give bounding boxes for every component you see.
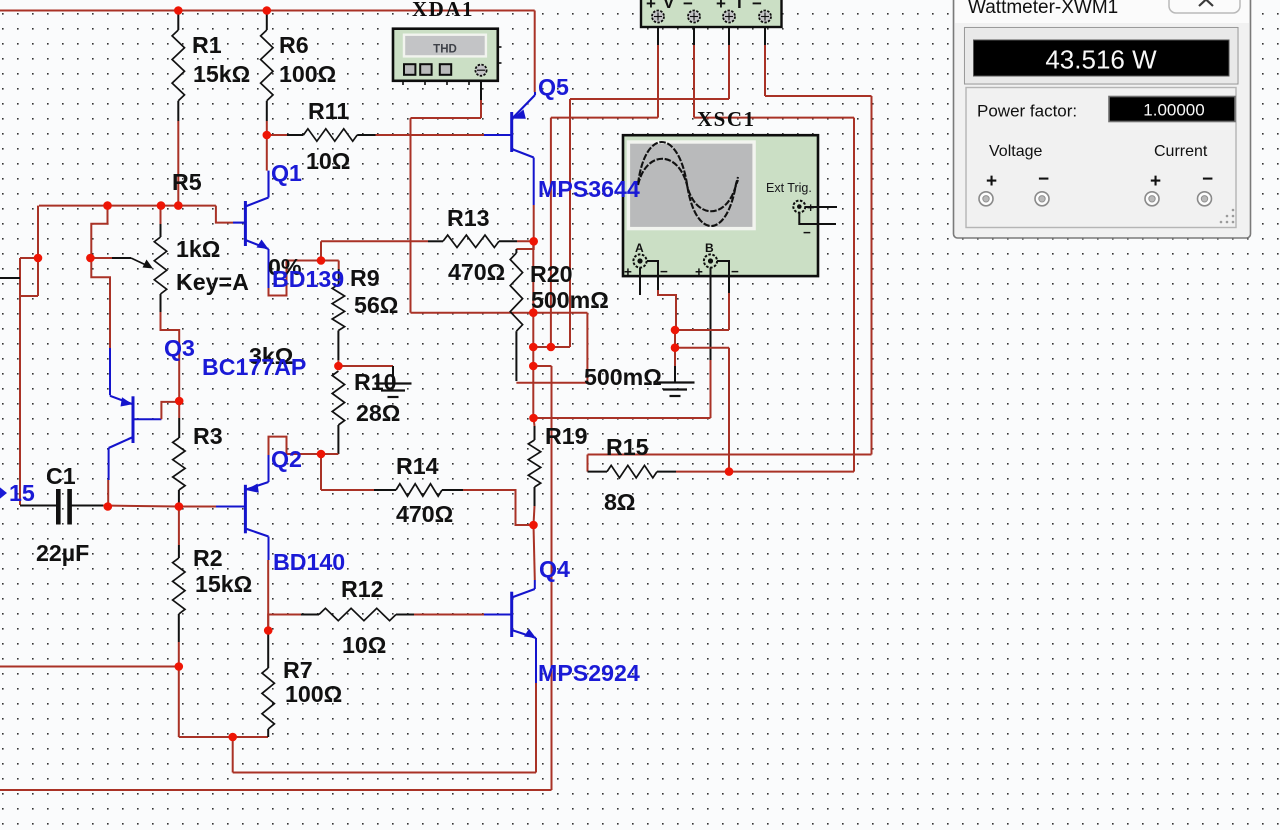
svg-text:15kΩ: 15kΩ xyxy=(195,571,252,597)
svg-text:XDA1: XDA1 xyxy=(412,0,474,21)
wire Q2 emitter drop xyxy=(268,537,270,561)
potentiometer R5 1k xyxy=(154,237,166,294)
svg-text:1kΩ: 1kΩ xyxy=(176,236,220,262)
svg-text:R13: R13 xyxy=(447,205,490,231)
wire R14 tap riser xyxy=(320,454,322,490)
scope terminal in-box leads xyxy=(640,261,729,277)
resistor R3 xyxy=(173,438,185,490)
svg-text:BC177AP: BC177AP xyxy=(202,354,306,380)
wire node A to input xyxy=(20,257,38,259)
wattmeter lower panel xyxy=(966,88,1236,228)
wire R5 top lead xyxy=(160,206,162,224)
resistor R11 10 xyxy=(303,129,357,141)
wire emitter rail y772 xyxy=(233,772,536,774)
wire bias rail corner to Q1 base xyxy=(216,206,233,223)
ground GND1 xyxy=(392,366,394,384)
svg-text:Current: Current xyxy=(1154,143,1208,160)
svg-text:56Ω: 56Ω xyxy=(354,292,398,318)
wire R3 top lead xyxy=(178,401,180,418)
svg-text:Voltage: Voltage xyxy=(989,143,1042,160)
svg-text:470Ω: 470Ω xyxy=(396,501,453,527)
wire left rail y667 xyxy=(0,666,179,668)
svg-text:R19: R19 xyxy=(545,423,588,449)
ground GND2 xyxy=(657,381,695,383)
wire wattmeter I- drop xyxy=(728,23,730,45)
scope trace A xyxy=(638,142,738,226)
svg-text:R1: R1 xyxy=(192,32,222,58)
svg-text:THD: THD xyxy=(433,44,457,56)
svg-text:XSC1: XSC1 xyxy=(697,107,756,131)
svg-text:I: I xyxy=(737,0,742,12)
svg-text:+: + xyxy=(646,0,656,13)
wire R1 top lead xyxy=(177,11,179,31)
wire R10 bottom lead xyxy=(337,425,339,454)
resistor R10 28 xyxy=(332,371,344,425)
wire R11 right to Q5 base xyxy=(357,134,375,136)
svg-text:28Ω: 28Ω xyxy=(356,400,400,426)
wire Q5 emitter feed from rail xyxy=(534,11,536,93)
scope ext trig stubs xyxy=(806,206,837,208)
wire Q2 collector jogs xyxy=(268,455,270,482)
wire R14 right to output xyxy=(442,489,463,491)
svg-text:Q2: Q2 xyxy=(271,446,302,472)
wire R12 right to Q4 base xyxy=(396,614,414,616)
wire R9 bottom lead xyxy=(337,331,339,361)
wire Q3 emitter down to node C xyxy=(108,448,110,480)
wire C1 right to node C xyxy=(72,505,104,507)
wire gnd2 stem xyxy=(674,348,676,366)
wire wattmeter V- drop xyxy=(693,23,695,45)
svg-text:470Ω: 470Ω xyxy=(448,259,505,285)
wire input vertical xyxy=(19,258,21,505)
svg-text:−: − xyxy=(752,0,762,13)
resistor R1 15k xyxy=(172,30,184,101)
svg-text:A: A xyxy=(635,241,644,255)
wire THD sense y312 xyxy=(411,312,588,314)
svg-text:−: − xyxy=(803,225,811,240)
wire R7 top lead xyxy=(267,631,269,669)
wire R20 bottom path xyxy=(515,331,517,381)
svg-text:V: V xyxy=(663,0,675,12)
resistor R7 100 xyxy=(262,668,274,729)
svg-text:+: + xyxy=(695,265,703,280)
svg-text:Q5: Q5 xyxy=(538,74,569,100)
wire R6 bottom to R11 node xyxy=(266,101,268,121)
wire bottom rail y790 xyxy=(0,789,552,791)
svg-text:C1: C1 xyxy=(46,463,76,489)
wattmeter close button xyxy=(1169,0,1240,13)
wattmeter resize grip xyxy=(1232,221,1235,224)
svg-text:Key=A: Key=A xyxy=(176,269,249,295)
wire R20 top jog xyxy=(516,241,533,249)
svg-text:R20: R20 xyxy=(530,261,573,287)
svg-text:500mΩ: 500mΩ xyxy=(531,287,609,313)
svg-text:8Ω: 8Ω xyxy=(604,489,636,515)
svg-text:15: 15 xyxy=(9,480,35,506)
wire Q4 collector riser xyxy=(534,525,535,580)
svg-text:R15: R15 xyxy=(606,434,649,460)
wire R1 bottom to bias rail xyxy=(177,101,179,121)
wire R11 node to Q1 collector xyxy=(266,135,268,171)
wire R6 top lead xyxy=(266,11,268,31)
svg-text:10Ω: 10Ω xyxy=(306,148,350,174)
wire y347 link xyxy=(533,346,570,348)
wire R2 node down xyxy=(178,667,180,738)
wire R13 tap riser xyxy=(320,241,322,260)
svg-text:1.00000: 1.00000 xyxy=(1143,101,1204,120)
wire jog to C1 drop xyxy=(20,295,38,297)
svg-text:R12: R12 xyxy=(341,576,384,602)
transistor Q3 PNP xyxy=(109,396,133,448)
wattmeter terminals xyxy=(979,192,993,206)
svg-text:Q1: Q1 xyxy=(271,160,302,186)
svg-text:−: − xyxy=(1202,169,1213,190)
transistor Q5 PNP xyxy=(512,92,535,158)
resistor R14 470 xyxy=(396,484,442,496)
wire THD lead xyxy=(480,75,482,100)
svg-text:500mΩ: 500mΩ xyxy=(584,364,662,390)
wire Q1 emitter jog xyxy=(268,249,270,288)
svg-text:R7: R7 xyxy=(283,657,313,683)
wire R15 left lead xyxy=(588,471,608,473)
wire R14 left lead xyxy=(321,489,374,491)
wire input stub from edge xyxy=(0,277,20,279)
wire R13 left lead xyxy=(321,240,428,242)
svg-text:+: + xyxy=(716,0,726,13)
wire node A step down left xyxy=(37,206,39,296)
wire node C to Q2 base xyxy=(179,506,216,508)
wire load return y454 xyxy=(588,454,872,456)
svg-text:43.516 W: 43.516 W xyxy=(1045,45,1157,75)
instrument XDA1 distortion analyzer xyxy=(393,29,502,85)
wire gnd2 link xyxy=(674,330,676,348)
scope terminal B xyxy=(704,254,717,267)
label net 15 xyxy=(0,485,7,501)
wire scope A- path xyxy=(657,277,659,290)
transistor Q1 NPN xyxy=(245,171,268,249)
wire R13 right lead xyxy=(499,240,517,242)
wire drop to emitter rail xyxy=(232,737,234,773)
wire scope A+ stub xyxy=(639,277,641,295)
svg-text:22µF: 22µF xyxy=(36,540,89,566)
svg-text:R11: R11 xyxy=(308,98,349,124)
instrument XWM1 wattmeter icon xyxy=(641,0,782,27)
resistor R20 500m xyxy=(510,253,522,331)
svg-text:Wattmeter-XWM1: Wattmeter-XWM1 xyxy=(968,0,1118,18)
wire R12 left jog xyxy=(268,615,301,631)
svg-text:Power factor:: Power factor: xyxy=(977,102,1077,121)
wire y260 node to R9 xyxy=(287,260,339,262)
svg-text:−: − xyxy=(683,0,693,13)
resistor R13 470 xyxy=(443,235,499,247)
svg-text:MPS3644: MPS3644 xyxy=(538,176,640,202)
wire THD drop xyxy=(410,118,412,313)
resistor R15 8 xyxy=(607,465,657,477)
svg-text:Ext Trig.: Ext Trig. xyxy=(766,181,812,195)
transistor Q4 NPN xyxy=(512,589,536,638)
svg-text:R9: R9 xyxy=(350,265,380,291)
svg-text:R3: R3 xyxy=(193,423,223,449)
resistor R12 10 xyxy=(319,608,396,620)
svg-text:BD140: BD140 xyxy=(273,549,345,575)
svg-text:R2: R2 xyxy=(193,545,223,571)
svg-text:100Ω: 100Ω xyxy=(285,681,342,707)
svg-text:+: + xyxy=(624,265,632,280)
svg-text:100Ω: 100Ω xyxy=(279,61,336,87)
wire gnd1 arm xyxy=(338,365,393,367)
wire R11 left lead xyxy=(267,134,287,136)
svg-text:R5: R5 xyxy=(172,169,202,195)
instrument XSC1 oscilloscope xyxy=(623,135,818,276)
wire output node riser x533 xyxy=(532,241,534,418)
wire bias rail y206 xyxy=(39,205,216,207)
wire R19 top lead xyxy=(534,418,535,426)
resistor R2 15k xyxy=(173,558,185,614)
wire scope B- path xyxy=(728,277,730,293)
wire Q4 emitter drop xyxy=(535,638,537,683)
wire bottom rail riser x551 xyxy=(551,366,553,790)
capacitor C1 22uF xyxy=(56,489,61,525)
wire top +V rail xyxy=(0,10,535,12)
wire wiper tap xyxy=(90,257,112,259)
svg-text:+: + xyxy=(1150,171,1161,192)
svg-text:R14: R14 xyxy=(396,453,439,479)
wattmeter main display xyxy=(965,28,1239,85)
wire R19 bottom lead xyxy=(534,487,536,506)
wattmeter XWM1 dialog window xyxy=(954,0,1251,238)
svg-text:+: + xyxy=(986,171,997,192)
resistor R9 56 xyxy=(332,285,344,331)
wire y366 link to bottom riser xyxy=(533,365,551,367)
wire Q5 collector to node xyxy=(533,158,535,206)
svg-text:−: − xyxy=(731,264,739,279)
svg-text:R10: R10 xyxy=(354,369,397,395)
wire R3 bottom to node C xyxy=(178,490,180,507)
wire bottom link y737 xyxy=(179,736,268,738)
svg-text:−: − xyxy=(1038,169,1049,190)
svg-text:MPS2924: MPS2924 xyxy=(538,660,640,686)
wire C1 left lead xyxy=(20,505,56,507)
resistor R6 100 xyxy=(261,30,273,101)
svg-text:Q3: Q3 xyxy=(164,335,195,361)
svg-text:B: B xyxy=(705,241,714,255)
transistor Q2 PNP xyxy=(245,482,268,537)
wire R2 bottom lead xyxy=(178,614,180,642)
svg-text:15kΩ: 15kΩ xyxy=(193,61,250,87)
scope trace B xyxy=(638,159,738,212)
wire R5 bottom jog to R3 chain xyxy=(160,294,162,312)
wire y454 Q2 collector bus xyxy=(287,453,339,455)
junction dots xyxy=(174,6,183,15)
svg-text:BD139: BD139 xyxy=(272,266,344,292)
scope terminal A xyxy=(633,254,646,267)
wire wattmeter V+ drop xyxy=(657,23,659,45)
wire wattmeter I+ drop xyxy=(764,23,766,45)
resistor R19 500m xyxy=(528,440,540,487)
svg-text:10Ω: 10Ω xyxy=(342,632,386,658)
svg-text:R6: R6 xyxy=(279,32,309,58)
wire R7 bottom lead xyxy=(267,729,269,737)
wire R15 right lead xyxy=(657,471,676,473)
wire R2 top lead xyxy=(178,507,180,546)
wire node B to Q3 path xyxy=(91,206,107,258)
svg-text:−: − xyxy=(660,264,668,279)
svg-text:Q4: Q4 xyxy=(539,556,570,582)
wire Q3 base jog xyxy=(133,418,161,420)
wire scope B+ path xyxy=(710,277,712,360)
wire dot3 down to Q3 xyxy=(91,258,110,348)
